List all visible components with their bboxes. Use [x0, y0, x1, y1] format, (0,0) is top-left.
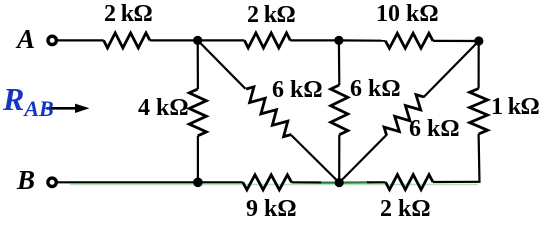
value label 6 kOhm diagonal-left — [272, 78, 323, 102]
resistor 2 k-ohm bottom — [386, 175, 434, 190]
wire R2 to node 2 — [290, 39, 339, 41]
node 1 junction dot — [193, 36, 202, 45]
wire node 1 down to R4k — [197, 40, 199, 89]
wire R6k-b diagonal to node 3 — [423, 41, 478, 97]
value label 2 kOhm top-left — [104, 2, 152, 26]
resistor 10 k-ohm — [385, 33, 433, 48]
value label 9 kOhm — [246, 197, 297, 221]
wire R4k down to node 4 — [197, 136, 199, 183]
wire node 1 to R2 — [198, 39, 245, 41]
value label 2 kOhm top-middle — [247, 3, 295, 27]
resistor 6 k-ohm middle — [331, 85, 348, 135]
node 2 junction dot — [334, 36, 343, 45]
terminal A — [48, 36, 56, 44]
value label 4 kOhm — [138, 96, 189, 120]
wire R1 to node 1 — [150, 39, 198, 41]
wire node 4 to R9k — [198, 181, 243, 183]
green tint under bottom rail — [70, 184, 478, 186]
wire R2k bottom to corner — [433, 181, 480, 183]
node 5 junction dot — [335, 178, 344, 187]
wire node 5 diagonal to R6k-b — [339, 134, 387, 182]
wire A terminal to R1 — [57, 39, 104, 41]
node RAB label — [3, 83, 54, 120]
wire corner up to R 1k — [478, 134, 481, 183]
wire node 2 to R3 — [339, 39, 386, 41]
terminal label B — [17, 167, 35, 194]
value label 6 kOhm diagonal-right — [409, 117, 460, 141]
value label 10 kOhm — [376, 2, 439, 26]
resistor 9 k-ohm — [243, 175, 292, 190]
resistor 6 k-ohm diagonal-right — [384, 95, 424, 135]
value label 1 kOhm — [491, 95, 539, 119]
value label 2 kOhm bottom — [380, 197, 431, 221]
resistor 2 k-ohm top-middle — [244, 33, 290, 48]
RAB arrow — [47, 107, 79, 110]
resistor 6 k-ohm diagonal-left — [246, 87, 291, 137]
wire R3 to node 3 — [433, 40, 479, 42]
terminal B — [48, 178, 56, 186]
wire R6k middle down to node 5 — [338, 135, 340, 183]
value label 6 kOhm middle — [350, 77, 401, 101]
node 4 junction dot — [193, 178, 203, 188]
node 3 junction dot — [474, 36, 483, 45]
terminal label A — [17, 26, 35, 53]
resistor 1 k-ohm — [470, 89, 488, 135]
wire node 2 down to R6k middle — [338, 40, 341, 85]
wire node 1 diagonal to R6k-a — [198, 40, 246, 88]
wire R6k-a diagonal to node 5 — [291, 135, 339, 183]
wire node 3 down to R1k — [478, 41, 480, 89]
resistor 2 k-ohm top-left — [104, 33, 150, 48]
wire B terminal to node 4 — [57, 181, 198, 183]
wire R9k to node 5 — [292, 181, 323, 183]
resistor 4 k-ohm — [189, 89, 206, 136]
wire node 5 to R2k bottom — [339, 181, 368, 183]
